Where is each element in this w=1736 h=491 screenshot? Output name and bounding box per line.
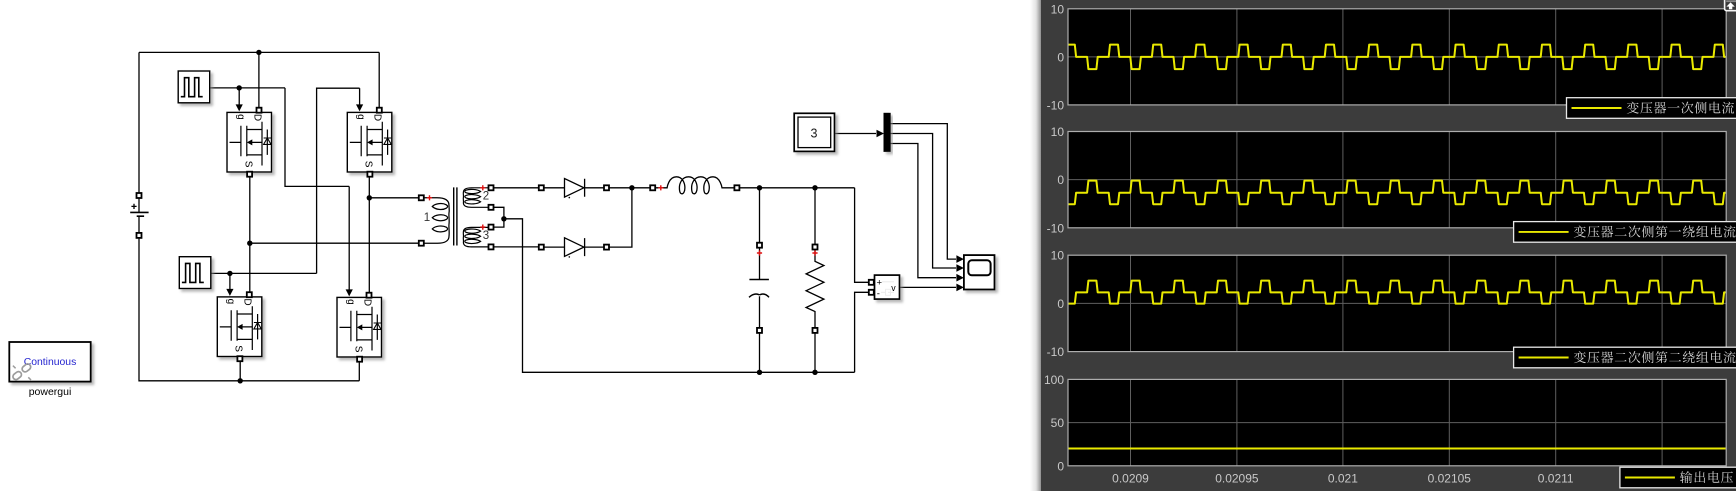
scope panel 1 plot area bbox=[1068, 9, 1726, 105]
svg-text:3: 3 bbox=[483, 230, 489, 242]
node junction capacitor top bbox=[757, 185, 762, 190]
wire to transformer primary bottom bbox=[250, 242, 419, 244]
winding3 port - bbox=[489, 244, 494, 249]
DC source - port bbox=[137, 233, 142, 238]
legend panel3 bbox=[1514, 347, 1736, 368]
wire capacitor top lead bbox=[759, 188, 761, 243]
arrow into scope input 4 bbox=[956, 284, 964, 292]
wire diode1 to inductor bbox=[609, 187, 653, 189]
Q3 source port S bbox=[237, 356, 242, 361]
svg-text:0: 0 bbox=[1057, 297, 1064, 311]
wire demux out1 to scope in1 bbox=[890, 124, 956, 260]
Q2 drain port D bbox=[377, 108, 382, 113]
svg-text:g: g bbox=[345, 299, 356, 305]
Simulink model canvas background bbox=[0, 0, 1040, 491]
svg-text:3: 3 bbox=[811, 127, 818, 141]
wire voltmeter output to scope in4 bbox=[900, 286, 956, 288]
svg-text:10: 10 bbox=[1051, 2, 1065, 16]
wire diode2 up to node bbox=[609, 188, 632, 247]
svg-text:S: S bbox=[242, 161, 253, 168]
svg-text:2: 2 bbox=[483, 191, 489, 203]
y axis tick labels bbox=[1044, 2, 1064, 473]
wire to voltmeter plus bbox=[855, 188, 869, 282]
capacitor C1 bbox=[749, 247, 769, 332]
voltmeter - port bbox=[869, 290, 874, 295]
node junction Q2.S-Q4.D / primary top bbox=[367, 195, 372, 200]
D1 anode port bbox=[539, 185, 544, 190]
D2 anode port bbox=[539, 245, 544, 250]
wire bottom rail bbox=[139, 238, 359, 381]
svg-text:D: D bbox=[242, 298, 253, 305]
node junction resistor bottom bbox=[812, 370, 817, 375]
svg-text:0: 0 bbox=[1057, 50, 1064, 64]
wire DC source positive lead bbox=[138, 52, 140, 193]
svg-text:D: D bbox=[372, 114, 383, 121]
polarity mark winding3 + bbox=[480, 225, 485, 230]
legend panel1 primary current bbox=[1567, 98, 1736, 119]
scope panel 3 plot area bbox=[1068, 255, 1726, 351]
polarity mark inductor + bbox=[658, 185, 663, 190]
constant block value 3 bbox=[794, 113, 834, 151]
wire capacitor bottom lead bbox=[759, 333, 761, 373]
x axis tick labels bbox=[1112, 472, 1574, 486]
svg-text:50: 50 bbox=[1051, 416, 1065, 430]
transformer secondary winding 3 bbox=[463, 227, 489, 247]
scope block bbox=[964, 255, 995, 289]
DC source + port bbox=[137, 193, 142, 198]
D1 cathode port bbox=[604, 185, 609, 190]
wire top rail from DC+ to Q1.D and Q2.D bbox=[139, 51, 379, 53]
wire winding3 bottom to diode2 bbox=[493, 246, 539, 248]
wire pulse1 output bbox=[210, 87, 285, 89]
wire demux out3 to scope in3 bbox=[890, 144, 956, 278]
scope panel 1 border bbox=[1068, 9, 1726, 105]
winding2 port + bbox=[489, 185, 494, 190]
diode D2 bbox=[544, 238, 605, 258]
waveform trace panel3 secondary winding2 current bbox=[1066, 281, 1728, 304]
svg-text:100: 100 bbox=[1044, 373, 1064, 387]
waveform trace panel1 primary current bbox=[1066, 45, 1728, 70]
resistor top port bbox=[813, 245, 818, 250]
scope window top-right dock icon bbox=[1725, 0, 1736, 11]
wire resistor top lead bbox=[814, 188, 816, 245]
primary port 1+ bbox=[419, 195, 424, 200]
Q4 source port S bbox=[357, 357, 362, 362]
svg-text:0.02105: 0.02105 bbox=[1428, 472, 1472, 486]
scope window background bbox=[1041, 0, 1736, 491]
D2 cathode port bbox=[604, 245, 609, 250]
wire pulse2 to Q3 gate bbox=[229, 273, 231, 290]
inductor L1 bbox=[655, 177, 737, 194]
svg-text:g: g bbox=[225, 299, 236, 305]
wire pulse1 to Q1 gate bbox=[238, 88, 240, 106]
inductor right port bbox=[734, 185, 739, 190]
voltmeter + port bbox=[869, 280, 874, 285]
powergui block bbox=[9, 342, 90, 398]
svg-text:+: + bbox=[877, 278, 883, 289]
arrow into scope input 3 bbox=[956, 274, 964, 282]
svg-text:1: 1 bbox=[424, 212, 430, 224]
svg-text:powergui: powergui bbox=[29, 386, 72, 398]
wire Q3 source down bbox=[239, 361, 241, 381]
svg-text:Continuous: Continuous bbox=[24, 357, 77, 368]
svg-text:0: 0 bbox=[1057, 459, 1064, 473]
node junction pulse2 / Q3 gate bbox=[227, 271, 232, 276]
legend panel2 bbox=[1514, 222, 1736, 243]
transformer primary winding 1 bbox=[424, 198, 450, 243]
resistor bottom port bbox=[813, 328, 818, 333]
wire to transformer primary top bbox=[369, 197, 419, 199]
wire pulse2 output bbox=[210, 272, 317, 274]
transformer secondary winding 2 bbox=[463, 188, 489, 208]
wire resistor bottom lead bbox=[814, 333, 816, 373]
svg-text:0.02095: 0.02095 bbox=[1215, 472, 1259, 486]
arrow into demux input bbox=[877, 130, 885, 138]
inductor left port bbox=[650, 185, 655, 190]
wire winding3 top to center tap bbox=[493, 219, 504, 227]
wire inductor to output top rail bbox=[739, 187, 854, 189]
polarity mark primary + bbox=[427, 195, 432, 200]
pulse generator P1 bbox=[178, 71, 210, 103]
wire winding2 bottom to center tap bbox=[493, 207, 504, 219]
svg-text:S: S bbox=[233, 345, 244, 352]
svg-text:10: 10 bbox=[1051, 249, 1065, 263]
arrow into Q2 gate bbox=[356, 104, 363, 111]
svg-text:-10: -10 bbox=[1047, 98, 1065, 112]
Q2 source port S bbox=[367, 172, 372, 177]
wire demux out2 to scope in2 bbox=[890, 134, 956, 269]
Q4 drain port D bbox=[367, 293, 372, 298]
node junction resistor top bbox=[812, 185, 817, 190]
node center tap junction bbox=[501, 216, 506, 221]
wire Q1 source to Q3 drain bbox=[249, 177, 251, 293]
node junction bottom rail / Q3 source bbox=[238, 378, 243, 383]
MOSFET Q1 bbox=[227, 112, 272, 172]
scope panel 2 plot area bbox=[1068, 132, 1726, 228]
MOSFET Q2 bbox=[347, 112, 392, 172]
demux bar bbox=[884, 113, 890, 151]
wire pulse1 route to Q4 bbox=[285, 88, 349, 186]
scope panel 2 border bbox=[1068, 132, 1726, 228]
arrow into Q3 gate bbox=[226, 289, 233, 296]
capacitor bottom port bbox=[757, 328, 762, 333]
node junction top rail / Q1 drain bbox=[256, 50, 261, 55]
polarity mark capacitor + bbox=[757, 250, 762, 255]
legend panel4 output voltage bbox=[1620, 467, 1736, 488]
wire Q2 source to Q4 drain bbox=[368, 177, 370, 293]
polarity mark resistor + bbox=[812, 250, 817, 255]
Q1 source port S bbox=[247, 172, 252, 177]
primary port 1- bbox=[419, 241, 424, 246]
node junction capacitor bottom bbox=[757, 370, 762, 375]
DC voltage source E1 bbox=[130, 198, 148, 233]
capacitor top port bbox=[757, 243, 762, 248]
svg-text:v: v bbox=[891, 283, 896, 293]
svg-text:g: g bbox=[235, 114, 246, 120]
node junction diode outputs bbox=[629, 185, 634, 190]
svg-text:-10: -10 bbox=[1047, 345, 1065, 359]
node junction Q1.S-Q3.D / primary bottom bbox=[247, 241, 252, 246]
arrow into scope input 2 bbox=[956, 264, 964, 272]
node junction pulse1 / Q1 gate bbox=[237, 85, 242, 90]
Q3 drain port D bbox=[247, 292, 252, 297]
arrow into scope input 1 bbox=[956, 255, 964, 263]
winding2 port - bbox=[489, 205, 494, 210]
wire center tap to output bottom rail bbox=[504, 219, 855, 372]
svg-text:10: 10 bbox=[1051, 125, 1065, 139]
svg-text:S: S bbox=[363, 161, 374, 168]
MOSFET Q3 bbox=[217, 297, 261, 357]
svg-text:-: - bbox=[877, 289, 880, 300]
scope panel 3 border bbox=[1068, 255, 1726, 351]
svg-text:0.0211: 0.0211 bbox=[1538, 472, 1574, 486]
transformer core bbox=[454, 187, 457, 245]
wire to voltmeter minus bbox=[855, 292, 869, 372]
diode D1 bbox=[544, 179, 605, 199]
winding3 port + bbox=[489, 225, 494, 230]
wire constant to demux bbox=[835, 133, 877, 135]
waveform trace panel2 secondary winding1 current bbox=[1066, 181, 1728, 205]
svg-text:D: D bbox=[361, 299, 372, 306]
voltage measurement U1 bbox=[875, 275, 900, 300]
svg-text:0.021: 0.021 bbox=[1328, 472, 1358, 486]
wire winding2 top to diode1 bbox=[493, 187, 539, 189]
svg-text:0: 0 bbox=[1057, 173, 1064, 187]
svg-text:S: S bbox=[352, 346, 363, 353]
svg-text:g: g bbox=[355, 114, 366, 120]
wire pulse2 route to Q2 bbox=[317, 88, 360, 273]
scope panel 4 border bbox=[1068, 379, 1726, 465]
wire down to Q4 gate bbox=[348, 186, 350, 290]
svg-text:D: D bbox=[251, 114, 262, 121]
arrow into Q1 gate bbox=[236, 104, 243, 111]
waveform trace panel4 output voltage bbox=[1066, 448, 1728, 450]
wire Q1 drain to top rail bbox=[258, 52, 260, 108]
wire Q2 drain to top rail bbox=[378, 52, 380, 108]
wire Q4 source down bbox=[358, 362, 360, 381]
resistor R1 bbox=[806, 247, 824, 333]
pulse generator P2 bbox=[179, 257, 211, 289]
wire down to Q2 gate bbox=[359, 88, 361, 105]
svg-text:-10: -10 bbox=[1047, 221, 1065, 235]
svg-text:0.0209: 0.0209 bbox=[1112, 472, 1149, 486]
arrow into Q4 gate bbox=[346, 289, 353, 296]
scope panel 4 plot area bbox=[1068, 379, 1726, 465]
polarity mark winding2 + bbox=[480, 185, 485, 190]
MOSFET Q4 bbox=[337, 297, 382, 357]
Q1 drain port D bbox=[257, 108, 262, 113]
